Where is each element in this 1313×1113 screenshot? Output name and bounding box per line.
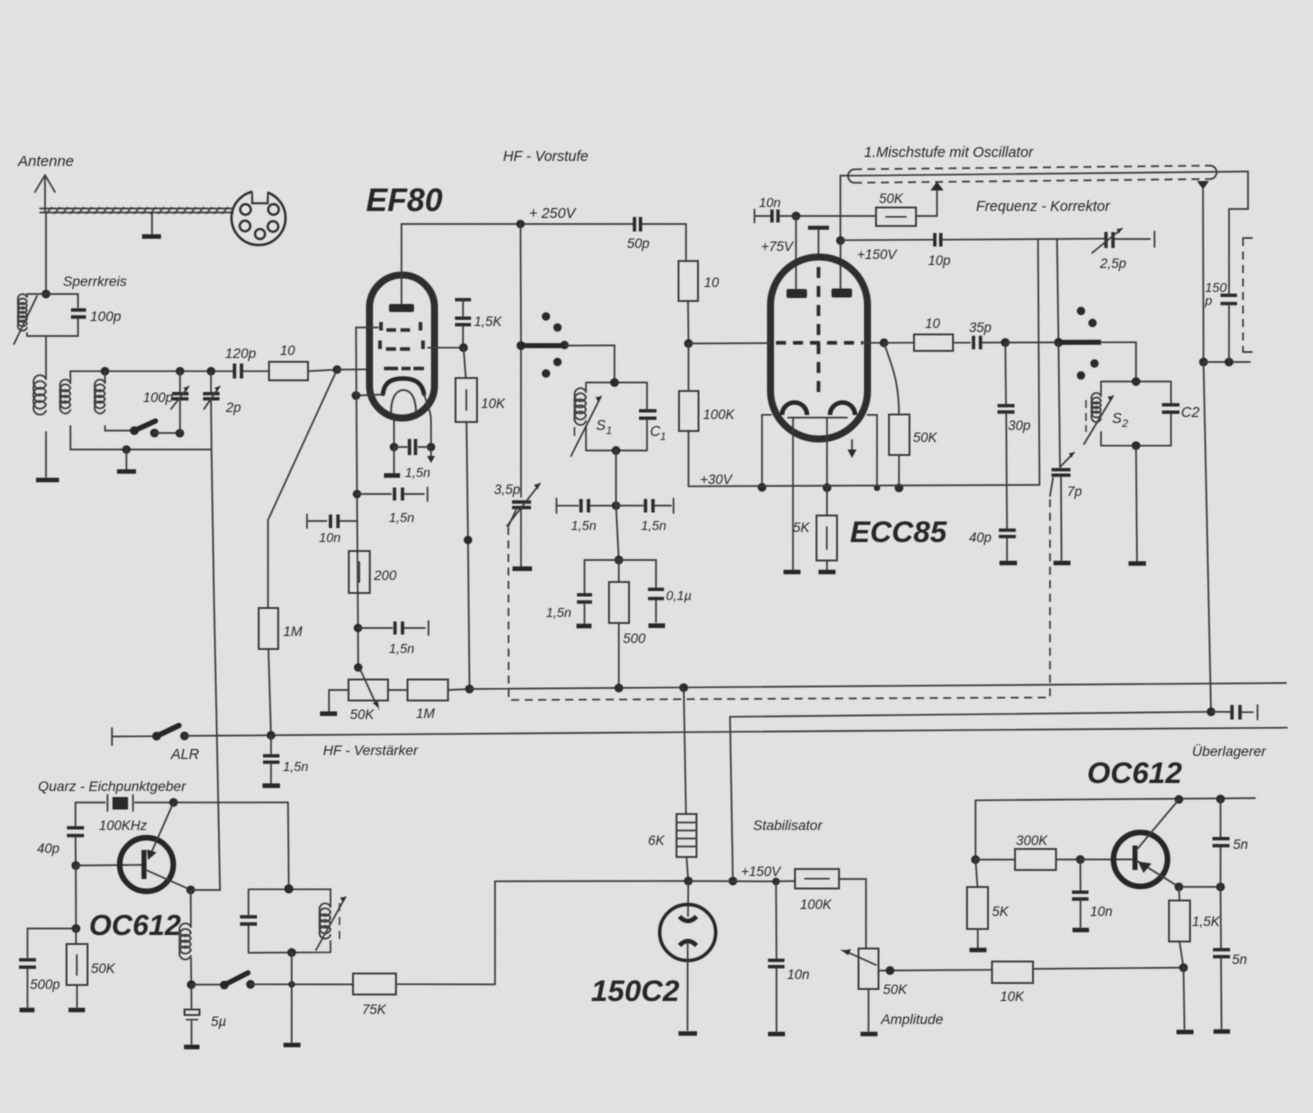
svg-text:Quarz - Eichpunktgeber: Quarz - Eichpunktgeber bbox=[38, 778, 187, 794]
svg-text:0,1µ: 0,1µ bbox=[666, 588, 692, 603]
svg-text:Frequenz - Korrektor: Frequenz - Korrektor bbox=[976, 199, 1111, 215]
svg-text:7p: 7p bbox=[1067, 484, 1083, 499]
svg-text:50K: 50K bbox=[913, 430, 938, 445]
svg-text:10n: 10n bbox=[787, 967, 810, 982]
svg-text:p: p bbox=[1204, 293, 1212, 308]
svg-text:100K: 100K bbox=[703, 407, 736, 422]
svg-text:C2: C2 bbox=[1181, 405, 1200, 421]
svg-text:1M: 1M bbox=[283, 623, 303, 639]
svg-text:S: S bbox=[1112, 411, 1122, 427]
svg-text:+75V: +75V bbox=[761, 239, 795, 254]
svg-text:10K: 10K bbox=[1000, 989, 1025, 1004]
svg-text:50K: 50K bbox=[883, 982, 908, 997]
svg-text:OC612: OC612 bbox=[89, 910, 181, 942]
svg-text:5n: 5n bbox=[1233, 837, 1248, 852]
svg-text:2: 2 bbox=[1121, 418, 1128, 430]
svg-text:10: 10 bbox=[704, 275, 720, 290]
svg-text:5K: 5K bbox=[793, 520, 811, 535]
svg-text:2,5p: 2,5p bbox=[1099, 256, 1127, 271]
svg-text:1,5n: 1,5n bbox=[641, 518, 666, 533]
svg-text:100p: 100p bbox=[143, 390, 174, 405]
svg-text:50K: 50K bbox=[879, 191, 904, 206]
svg-text:100K: 100K bbox=[800, 897, 833, 912]
svg-text:30p: 30p bbox=[1008, 418, 1031, 433]
svg-text:1,5K: 1,5K bbox=[474, 314, 503, 329]
svg-text:5K: 5K bbox=[992, 904, 1010, 919]
svg-text:1,5n: 1,5n bbox=[283, 759, 308, 774]
svg-text:120p: 120p bbox=[225, 345, 256, 361]
svg-text:300K: 300K bbox=[1016, 833, 1049, 848]
svg-text:Sperrkreis: Sperrkreis bbox=[63, 273, 127, 289]
svg-text:HF - Vorstufe: HF - Vorstufe bbox=[503, 149, 588, 165]
svg-text:S: S bbox=[596, 418, 606, 434]
svg-text:Überlagerer: Überlagerer bbox=[1192, 742, 1267, 759]
svg-text:2p: 2p bbox=[225, 400, 242, 415]
svg-text:150C2: 150C2 bbox=[591, 975, 680, 1008]
svg-text:1M: 1M bbox=[416, 706, 436, 721]
svg-text:10n: 10n bbox=[759, 195, 781, 210]
svg-text:1.Mischstufe mit Oscillator: 1.Mischstufe mit Oscillator bbox=[864, 145, 1034, 161]
svg-text:5µ: 5µ bbox=[211, 1014, 227, 1029]
svg-text:+150V: +150V bbox=[857, 247, 898, 262]
svg-text:10p: 10p bbox=[928, 253, 951, 268]
svg-text:1,5n: 1,5n bbox=[546, 605, 571, 620]
svg-text:10n: 10n bbox=[1090, 904, 1113, 919]
svg-text:1: 1 bbox=[660, 431, 666, 443]
svg-text:1,5n: 1,5n bbox=[571, 518, 596, 533]
svg-text:100KHz: 100KHz bbox=[99, 818, 147, 833]
svg-text:1,5n: 1,5n bbox=[405, 465, 430, 480]
svg-text:50p: 50p bbox=[627, 236, 650, 251]
svg-text:40p: 40p bbox=[37, 841, 60, 856]
svg-text:EF80: EF80 bbox=[366, 182, 443, 218]
svg-text:500p: 500p bbox=[30, 977, 61, 992]
svg-text:50K: 50K bbox=[91, 961, 116, 976]
svg-text:75K: 75K bbox=[362, 1002, 387, 1017]
svg-text:1,5n: 1,5n bbox=[389, 641, 414, 656]
svg-text:OC612: OC612 bbox=[1087, 757, 1182, 790]
svg-text:+30V: +30V bbox=[700, 472, 734, 487]
svg-text:200: 200 bbox=[373, 568, 397, 583]
svg-text:Amplitude: Amplitude bbox=[880, 1011, 943, 1027]
svg-text:100p: 100p bbox=[90, 308, 121, 324]
svg-text:10K: 10K bbox=[481, 396, 506, 411]
svg-text:+ 250V: + 250V bbox=[529, 206, 577, 222]
svg-text:3,5p: 3,5p bbox=[494, 482, 521, 497]
svg-text:Antenne: Antenne bbox=[17, 153, 74, 170]
svg-text:HF - Verstärker: HF - Verstärker bbox=[323, 742, 419, 758]
svg-text:ALR: ALR bbox=[170, 747, 200, 763]
svg-text:1,5n: 1,5n bbox=[389, 510, 414, 525]
svg-text:6K: 6K bbox=[648, 833, 666, 848]
svg-text:40p: 40p bbox=[969, 530, 992, 545]
svg-text:1: 1 bbox=[606, 425, 612, 437]
svg-text:10: 10 bbox=[925, 316, 941, 331]
svg-text:1,5K: 1,5K bbox=[1192, 914, 1221, 929]
svg-text:10n: 10n bbox=[319, 530, 341, 545]
svg-text:Stabilisator: Stabilisator bbox=[753, 817, 824, 833]
svg-text:ECC85: ECC85 bbox=[850, 516, 948, 549]
svg-text:35p: 35p bbox=[969, 320, 992, 335]
svg-text:10: 10 bbox=[280, 343, 296, 358]
svg-text:50K: 50K bbox=[350, 707, 375, 722]
svg-text:500: 500 bbox=[623, 631, 646, 646]
svg-text:5n: 5n bbox=[1232, 952, 1247, 967]
svg-text:+150V: +150V bbox=[741, 864, 782, 879]
